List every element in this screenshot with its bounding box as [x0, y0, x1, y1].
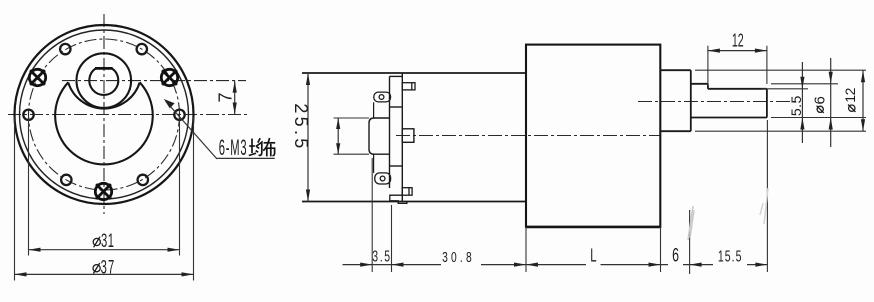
dim 7 line	[234, 81, 236, 115]
flange inner circle	[20, 30, 189, 199]
svg-text:6: 6	[812, 96, 829, 104]
gear case horseshoe arc	[68, 82, 140, 108]
M3 hole 4 (180deg)	[23, 110, 33, 120]
glyph 均	[249, 138, 262, 155]
small dim line	[337, 118, 339, 154]
hub circle	[77, 53, 132, 108]
dim 6 text	[668, 245, 683, 267]
rear bearing bump on motor axis	[402, 129, 414, 143]
rear cap plate	[390, 73, 403, 202]
bottom dimension chain line	[343, 264, 768, 266]
dim Ø6 line (outside arrows)	[830, 58, 832, 147]
output shaft axis centerline	[638, 101, 800, 103]
bottom step	[390, 195, 407, 203]
terminal lug bottom	[375, 173, 391, 184]
flange outer circle Ø37	[15, 25, 194, 204]
arrowheads on chain	[360, 263, 372, 267]
dim Ø12 text	[849, 105, 855, 111]
svg-text:31: 31	[101, 231, 115, 252]
gearbox bottom edge (thick)	[526, 226, 660, 228]
glyph 布	[263, 138, 275, 156]
vertical centerline	[103, 14, 105, 214]
dim Ø37 text	[93, 265, 100, 272]
svg-text:3.5: 3.5	[372, 247, 392, 265]
svg-text:6: 6	[672, 245, 679, 266]
M3 hole 1 (0deg)	[174, 110, 184, 120]
shaft circle with D-flat	[89, 69, 118, 95]
M3 hole 5 (240deg)	[61, 175, 71, 185]
svg-text:15.5: 15.5	[718, 247, 743, 265]
leader 6-M3	[166, 102, 217, 160]
dim L text	[586, 246, 601, 267]
screw C (270deg)	[95, 183, 111, 199]
small dim (terminal) extension lines	[334, 117, 370, 119]
dim Ø31 extension lines	[28, 117, 30, 256]
screw A (30deg)	[161, 69, 177, 85]
dim Ø31 line	[29, 249, 180, 251]
cap edge connectors	[373, 102, 375, 118]
dim 15.5 text	[713, 247, 747, 266]
faint artifacts	[688, 206, 694, 240]
motor body top edge + 25.5 extension	[302, 72, 526, 74]
gear case big arc	[55, 82, 153, 164]
dim 30.8 text	[441, 248, 481, 267]
gearbox body	[526, 45, 660, 227]
dim Ø37 extension lines	[14, 117, 16, 281]
M3 hole 2 (60deg)	[137, 44, 147, 54]
bearing boss	[660, 70, 691, 131]
right side extension lines	[695, 69, 866, 71]
dim 12 line	[708, 50, 767, 52]
terminal lug top	[374, 92, 391, 102]
top crimp tab	[402, 83, 415, 90]
shaft horizontal centerline	[62, 80, 246, 82]
svg-text:6-M3: 6-M3	[219, 135, 247, 160]
dim Ø37 line	[15, 273, 194, 275]
dim 5.5 line (outside arrows)	[801, 62, 803, 143]
svg-text:L: L	[590, 246, 597, 267]
dim Ø12 line (inside arrows)	[862, 70, 864, 131]
screw B (150deg)	[29, 69, 45, 85]
dim Ø6 text	[817, 106, 823, 112]
M3 hole 3 (120deg)	[60, 44, 70, 54]
output shaft	[691, 84, 767, 118]
svg-text:30.8: 30.8	[442, 248, 475, 266]
bolt circle Ø31 (dash-dot)	[29, 39, 180, 190]
M3 hole 6 (300deg)	[138, 175, 148, 185]
motor axis centerline	[396, 135, 661, 137]
svg-text:37: 37	[101, 257, 116, 278]
svg-text:5.5: 5.5	[788, 95, 804, 116]
bottom extension lines	[371, 158, 373, 272]
svg-text:12: 12	[732, 30, 744, 51]
dim 12 extension lines	[707, 46, 709, 86]
flange horizontal centerline	[8, 114, 250, 116]
dim 25.5 line	[307, 73, 309, 202]
svg-text:25.5: 25.5	[291, 103, 311, 151]
shaft flat chord	[95, 67, 113, 70]
svg-text:7: 7	[215, 92, 235, 102]
terminal block bump	[369, 118, 390, 154]
svg-text:12: 12	[842, 87, 858, 102]
bottom crimp tab	[402, 188, 412, 196]
motor body bottom edge + 25.5 extension	[302, 201, 526, 203]
dim Ø31 text	[93, 238, 100, 245]
